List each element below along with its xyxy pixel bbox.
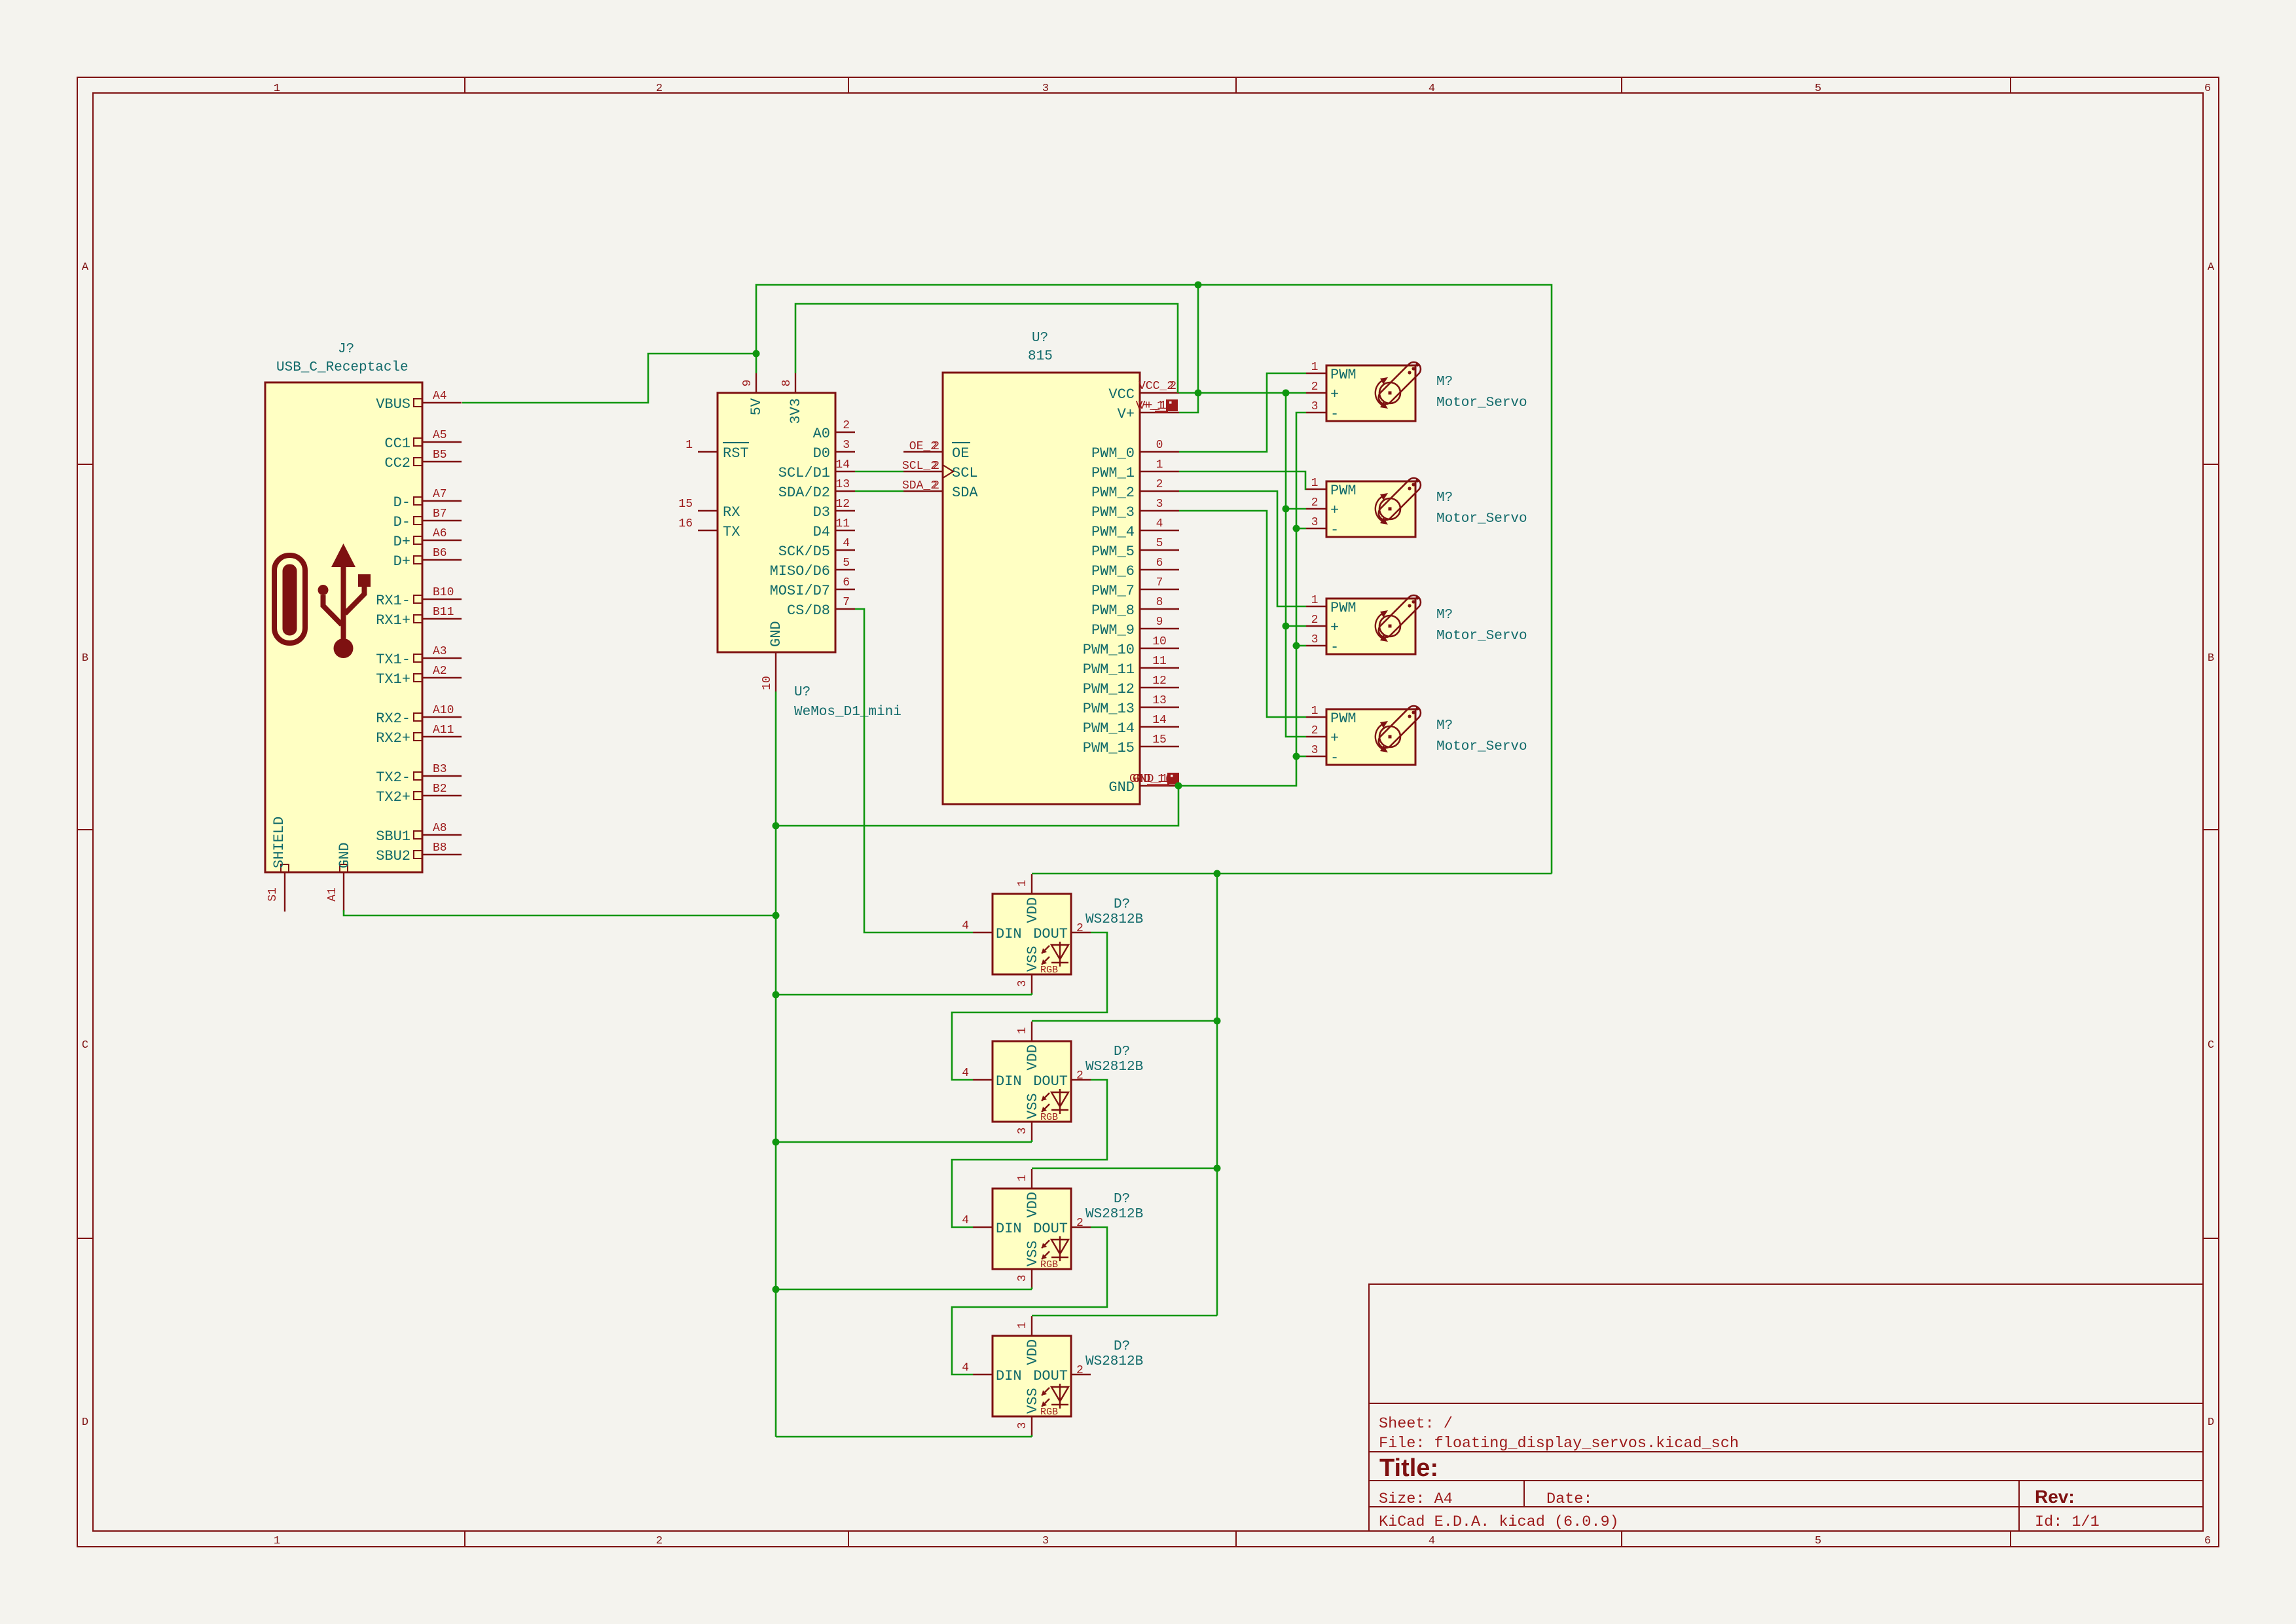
pin 2 A0 of U1 xyxy=(835,432,855,433)
svg-text:B8: B8 xyxy=(433,841,447,855)
svg-text:GND: GND xyxy=(1108,779,1135,796)
USB icon receptacle oval xyxy=(274,555,305,643)
servo pin 2 + xyxy=(1306,736,1326,737)
led D? WS2812B body xyxy=(993,894,1071,974)
svg-text:0: 0 xyxy=(1156,439,1163,452)
svg-text:15: 15 xyxy=(678,498,693,511)
junction VDD feeder LED2 xyxy=(1214,1018,1221,1025)
svg-text:2: 2 xyxy=(1076,1217,1084,1230)
svg-text:2: 2 xyxy=(1156,478,1163,491)
svg-text:3: 3 xyxy=(1311,400,1319,413)
svg-text:CC2: CC2 xyxy=(384,455,410,471)
svg-text:SBU1: SBU1 xyxy=(376,828,410,845)
svg-text:RX2+: RX2+ xyxy=(376,730,410,747)
svg-text:SCL: SCL xyxy=(952,465,978,481)
wire VBUS from J1 to 5V node xyxy=(462,354,756,403)
svg-text:16: 16 xyxy=(678,517,693,530)
junction - bus servo2 xyxy=(1293,525,1300,532)
pin SCL_2 SCL of U2 xyxy=(903,471,943,472)
servo pin 1 PWM xyxy=(1306,489,1326,490)
title block column divider rev xyxy=(2018,1481,2020,1531)
wire 5V top rail xyxy=(756,285,1552,874)
wire 5V pin riser xyxy=(756,354,757,373)
svg-text:9: 9 xyxy=(741,380,754,387)
svg-text:2: 2 xyxy=(1311,614,1319,627)
junction 5V node xyxy=(753,350,760,358)
svg-text:WS2812B: WS2812B xyxy=(1085,1354,1143,1369)
svg-text:PWM: PWM xyxy=(1330,600,1357,616)
module U1 WeMos_D1_mini body xyxy=(718,393,835,652)
wire SCL between U1 and U2 xyxy=(855,471,903,473)
wire GND from J1 A1 xyxy=(344,910,776,915)
svg-text:D+: D+ xyxy=(393,534,410,550)
svg-text:3: 3 xyxy=(843,439,850,452)
svg-text:RX1+: RX1+ xyxy=(376,612,410,629)
svg-text:4: 4 xyxy=(1429,1535,1435,1547)
svg-text:B3: B3 xyxy=(433,763,447,776)
svg-text:2: 2 xyxy=(1169,380,1176,393)
svg-text:3: 3 xyxy=(1016,1275,1029,1282)
pin 8 PWM_8 of U2 xyxy=(1140,608,1179,610)
ic U2 815 body xyxy=(943,373,1140,804)
junction VCC/V+/5V xyxy=(1195,390,1202,397)
motor servo M? body xyxy=(1326,365,1415,421)
wire PWM_2 to servo3 xyxy=(1179,491,1306,606)
pin 7 PWM_7 of U2 xyxy=(1140,589,1179,590)
svg-text:+: + xyxy=(1330,386,1339,403)
svg-text:+: + xyxy=(1330,730,1339,747)
svg-text:C: C xyxy=(2208,1039,2214,1052)
svg-text:VDD: VDD xyxy=(1025,1192,1041,1218)
svg-text:PWM: PWM xyxy=(1330,367,1357,383)
svg-text:VSS: VSS xyxy=(1025,1240,1041,1266)
svg-text:RGB: RGB xyxy=(1040,1112,1058,1123)
pin B3 TX2- of J1 xyxy=(422,775,462,777)
junction 5V rail to VCC drop xyxy=(1195,282,1202,289)
svg-text:M?: M? xyxy=(1436,490,1453,506)
svg-text:VDD: VDD xyxy=(1025,1044,1041,1071)
svg-text:A5: A5 xyxy=(433,429,447,442)
svg-text:2: 2 xyxy=(656,1535,663,1547)
svg-text:PWM_13: PWM_13 xyxy=(1083,701,1135,717)
svg-text:TX2+: TX2+ xyxy=(376,789,410,805)
svg-text:PWM_10: PWM_10 xyxy=(1083,642,1135,658)
junction + bus servo2 xyxy=(1283,506,1290,513)
pin 12 PWM_12 of U2 xyxy=(1140,687,1179,688)
svg-text:B2: B2 xyxy=(433,783,447,796)
svg-text:B: B xyxy=(2208,652,2214,665)
junction VDD rail feeder xyxy=(1214,870,1221,877)
svg-text:SCK/D5: SCK/D5 xyxy=(778,544,830,560)
svg-text:4: 4 xyxy=(962,1214,969,1227)
svg-text:4: 4 xyxy=(962,919,969,932)
pin S1 SHIELD of J1 xyxy=(284,872,285,912)
wire PWM_0 to servo1 xyxy=(1179,373,1306,452)
svg-text:RGB: RGB xyxy=(1040,965,1058,976)
servo pin 1 PWM xyxy=(1306,606,1326,607)
svg-text:1: 1 xyxy=(1311,594,1319,607)
led pin 3 VSS xyxy=(1031,1416,1032,1436)
svg-text:KiCad E.D.A. kicad (6.0.9): KiCad E.D.A. kicad (6.0.9) xyxy=(1379,1513,1619,1531)
svg-text:8: 8 xyxy=(1156,596,1163,609)
svg-text:File: floating_display_servos.: File: floating_display_servos.kicad_sch xyxy=(1379,1435,1739,1452)
svg-text:PWM_15: PWM_15 xyxy=(1083,740,1135,756)
svg-text:D: D xyxy=(82,1416,88,1429)
wire V+ link xyxy=(1179,393,1198,413)
svg-text:VBUS: VBUS xyxy=(376,396,410,413)
svg-text:PWM_14: PWM_14 xyxy=(1083,720,1135,737)
USB icon trident symbol xyxy=(318,544,371,658)
led pin 4 DIN xyxy=(973,1374,993,1375)
junction GND pin of U2 xyxy=(1175,783,1182,790)
pin V+ stacked numbers of U2 xyxy=(1140,412,1179,413)
title block row dividers xyxy=(1369,1403,2203,1404)
motor servo M? body xyxy=(1326,599,1415,654)
pin 13 SDA/D2 of U1 xyxy=(835,490,855,492)
svg-text:VCC_2: VCC_2 xyxy=(1139,380,1174,393)
svg-text:DOUT: DOUT xyxy=(1033,1368,1068,1384)
svg-text:3: 3 xyxy=(1016,1422,1029,1430)
pin 15 PWM_15 of U2 xyxy=(1140,746,1179,747)
pin OE_2 ~OE of U2 xyxy=(903,451,943,452)
wire servo - bus xyxy=(1178,413,1306,786)
svg-text:-: - xyxy=(1330,750,1339,766)
svg-text:A1: A1 xyxy=(326,887,339,902)
svg-text:D+: D+ xyxy=(393,553,410,570)
svg-text:1: 1 xyxy=(1016,880,1029,887)
servo pin 1 PWM xyxy=(1306,373,1326,374)
svg-text:B5: B5 xyxy=(433,449,447,462)
led pin 4 DIN xyxy=(973,1227,993,1228)
svg-text:PWM_9: PWM_9 xyxy=(1091,622,1135,638)
svg-text:U?: U? xyxy=(1032,331,1048,346)
svg-text:CS/D8: CS/D8 xyxy=(787,602,830,619)
led pin 3 VSS xyxy=(1031,1269,1032,1289)
servo motor glyph xyxy=(1376,360,1423,409)
svg-text:Date:: Date: xyxy=(1546,1490,1593,1508)
svg-text:4: 4 xyxy=(1156,517,1163,530)
wire + bus branch servo2 xyxy=(1286,508,1306,510)
svg-text:C: C xyxy=(82,1039,88,1052)
led pin 2 DOUT xyxy=(1071,1227,1091,1228)
wire PWM_1 to servo2 xyxy=(1179,471,1306,489)
pin 3 D0 of U1 xyxy=(835,451,855,452)
wire LED1 VSS to GND trunk xyxy=(776,994,1032,996)
pin 5 MISO/D6 of U1 xyxy=(835,569,855,570)
svg-text:1: 1 xyxy=(274,83,280,95)
svg-text:Motor_Servo: Motor_Servo xyxy=(1436,629,1527,644)
svg-text:2: 2 xyxy=(1076,922,1084,935)
servo pin 2 + xyxy=(1306,508,1326,509)
svg-text:MISO/D6: MISO/D6 xyxy=(770,563,830,580)
svg-text:10: 10 xyxy=(1152,635,1167,648)
svg-text:VSS: VSS xyxy=(1025,1388,1041,1414)
led pin 3 VSS xyxy=(1031,1122,1032,1141)
wire LED VDD feeder vertical xyxy=(1216,874,1218,1316)
svg-text:DIN: DIN xyxy=(996,926,1022,942)
servo pin 3 - xyxy=(1306,756,1326,757)
svg-text:14: 14 xyxy=(1152,714,1167,727)
pin 14 SCL/D1 of U1 xyxy=(835,471,855,472)
svg-text:3: 3 xyxy=(1311,633,1319,646)
svg-text:S1: S1 xyxy=(266,887,280,902)
svg-text:1: 1 xyxy=(1016,1322,1029,1329)
svg-text:TX1+: TX1+ xyxy=(376,671,410,688)
led pin 2 DOUT xyxy=(1071,1374,1091,1375)
svg-text:RX2-: RX2- xyxy=(376,710,410,727)
pin 2 PWM_2 of U2 xyxy=(1140,490,1179,492)
svg-text:PWM_3: PWM_3 xyxy=(1091,504,1135,521)
wire LED4 VDD xyxy=(1032,1315,1217,1317)
wire - bus branch servo4 xyxy=(1296,756,1306,758)
pin 15 RX of U1 xyxy=(698,510,718,511)
pin B7 D- of J1 xyxy=(422,520,462,521)
pin A6 D+ of J1 xyxy=(422,540,462,541)
svg-text:2: 2 xyxy=(1076,1069,1084,1082)
svg-text:RST: RST xyxy=(723,445,749,462)
svg-text:3V3: 3V3 xyxy=(788,398,804,424)
pin B10 RX1- of J1 xyxy=(422,599,462,600)
svg-text:Title:: Title: xyxy=(1379,1454,1438,1482)
wire CS/D8 to LED1 DIN xyxy=(855,609,973,932)
svg-text:2: 2 xyxy=(1311,724,1319,737)
pin B11 RX1+ of J1 xyxy=(422,618,462,619)
wire LED3 VDD xyxy=(1032,1168,1217,1170)
junction GND trunk LED row xyxy=(773,991,780,999)
svg-text:SCL/D1: SCL/D1 xyxy=(778,465,830,481)
svg-text:DOUT: DOUT xyxy=(1033,1073,1068,1090)
led D? WS2812B body xyxy=(993,1189,1071,1269)
svg-text:8: 8 xyxy=(780,380,793,387)
pin 4 SCK/D5 of U1 xyxy=(835,549,855,551)
pin 4 PWM_4 of U2 xyxy=(1140,530,1179,531)
svg-text:11: 11 xyxy=(1152,655,1167,668)
svg-text:A: A xyxy=(82,261,89,274)
svg-text:1: 1 xyxy=(1156,458,1163,471)
pin A11 RX2+ of J1 xyxy=(422,736,462,737)
svg-text:VDD: VDD xyxy=(1025,1339,1041,1365)
servo pin 3 - xyxy=(1306,412,1326,413)
svg-text:DIN: DIN xyxy=(996,1368,1022,1384)
pin 13 PWM_13 of U2 xyxy=(1140,707,1179,708)
svg-text:PWM_8: PWM_8 xyxy=(1091,602,1135,619)
pin 6 MOSI/D7 of U1 xyxy=(835,589,855,590)
wire LED4 VSS to GND trunk xyxy=(776,1436,1032,1438)
frame column ticks bottom xyxy=(464,1531,465,1547)
svg-text:RX1-: RX1- xyxy=(376,593,410,609)
wire SDA between U1 and U2 xyxy=(855,490,903,492)
pin 3 PWM_3 of U2 xyxy=(1140,510,1179,511)
svg-text:CC1: CC1 xyxy=(384,435,410,452)
led diode glyph xyxy=(1042,942,1068,967)
svg-text:M?: M? xyxy=(1436,375,1453,390)
led diode glyph xyxy=(1042,1384,1068,1409)
svg-text:SBU2: SBU2 xyxy=(376,848,410,864)
motor servo M? body xyxy=(1326,481,1415,537)
pin 11 D4 of U1 xyxy=(835,530,855,531)
svg-text:PWM_6: PWM_6 xyxy=(1091,563,1135,580)
svg-text:A10: A10 xyxy=(433,704,454,717)
svg-text:TX: TX xyxy=(723,524,740,540)
junction VCC line to + bus xyxy=(1283,390,1290,397)
svg-text:PWM_11: PWM_11 xyxy=(1083,661,1135,678)
svg-text:-: - xyxy=(1330,639,1339,655)
svg-text:PWM_7: PWM_7 xyxy=(1091,583,1135,599)
svg-text:D4: D4 xyxy=(813,524,830,540)
svg-text:Sheet: /: Sheet: / xyxy=(1379,1415,1453,1433)
svg-text:2: 2 xyxy=(932,460,939,473)
svg-text:PWM_12: PWM_12 xyxy=(1083,681,1135,697)
pin A3 TX1- of J1 xyxy=(422,657,462,659)
svg-text:A8: A8 xyxy=(433,822,447,835)
svg-text:9: 9 xyxy=(1156,616,1163,629)
pin 12 D3 of U1 xyxy=(835,510,855,511)
svg-text:RGB: RGB xyxy=(1040,1407,1058,1418)
pin 9 PWM_9 of U2 xyxy=(1140,628,1179,629)
svg-text:Id: 1/1: Id: 1/1 xyxy=(2035,1513,2100,1531)
wire GND trunk vertical xyxy=(775,692,777,1437)
svg-text:3: 3 xyxy=(1156,498,1163,511)
svg-text:Size: A4: Size: A4 xyxy=(1379,1490,1453,1508)
svg-text:D?: D? xyxy=(1114,1044,1130,1060)
frame row ticks left xyxy=(77,464,93,465)
pin B8 SBU2 of J1 xyxy=(422,854,462,855)
wire - bus branch servo2 xyxy=(1296,528,1306,530)
pin A7 D- of J1 xyxy=(422,500,462,502)
svg-text:4: 4 xyxy=(962,1067,969,1080)
title block column divider size/date xyxy=(1523,1481,1525,1507)
svg-text:7: 7 xyxy=(1156,576,1163,589)
svg-text:Motor_Servo: Motor_Servo xyxy=(1436,511,1527,526)
junction GND trunk row 1398 xyxy=(773,912,780,919)
junction + bus servo3 xyxy=(1283,623,1290,630)
led pin 3 VSS xyxy=(1031,974,1032,994)
svg-text:A3: A3 xyxy=(433,645,447,658)
svg-text:V+_1: V+_1 xyxy=(1136,399,1164,413)
svg-text:13: 13 xyxy=(835,478,850,491)
svg-text:D0: D0 xyxy=(813,445,830,462)
junction - bus servo4 xyxy=(1293,753,1300,760)
pin 6 PWM_6 of U2 xyxy=(1140,569,1179,570)
led diode glyph xyxy=(1042,1236,1068,1261)
junction GND trunk row 1261 xyxy=(773,822,780,830)
svg-text:6: 6 xyxy=(2204,1535,2211,1547)
frame row ticks right xyxy=(2203,464,2219,465)
svg-text:OE: OE xyxy=(952,445,969,462)
svg-text:A7: A7 xyxy=(433,488,447,501)
svg-text:SDA: SDA xyxy=(952,485,978,501)
wire + bus branch servo3 xyxy=(1286,625,1306,627)
svg-text:Rev:: Rev: xyxy=(2035,1486,2075,1507)
svg-text:5: 5 xyxy=(1815,83,1821,95)
svg-text:1: 1 xyxy=(1311,705,1319,718)
svg-text:M?: M? xyxy=(1436,608,1453,623)
pin 11 PWM_11 of U2 xyxy=(1140,667,1179,669)
wire LED3 VSS to GND trunk xyxy=(776,1289,1032,1291)
svg-text:2: 2 xyxy=(656,83,663,95)
wire LED1 DOUT to LED2 DIN xyxy=(952,932,1107,1080)
svg-text:DIN: DIN xyxy=(996,1073,1022,1090)
title block outline xyxy=(1369,1284,2203,1531)
svg-text:5: 5 xyxy=(1156,537,1163,550)
svg-text:GND: GND xyxy=(337,842,353,868)
svg-text:14: 14 xyxy=(835,458,850,471)
svg-text:815: 815 xyxy=(1028,349,1053,364)
junction GND trunk LED row xyxy=(773,1286,780,1293)
svg-text:2: 2 xyxy=(1076,1364,1084,1377)
svg-text:WS2812B: WS2812B xyxy=(1085,1060,1143,1075)
svg-text:3: 3 xyxy=(1042,83,1049,95)
svg-text:4: 4 xyxy=(843,537,850,550)
svg-text:12: 12 xyxy=(1152,674,1167,688)
svg-text:1: 1 xyxy=(274,1535,280,1547)
pin SDA_2 SDA of U2 xyxy=(903,490,943,492)
svg-text:TX1-: TX1- xyxy=(376,652,410,668)
svg-text:A: A xyxy=(2208,261,2215,274)
led pin 1 VDD xyxy=(1031,1316,1032,1336)
svg-text:6: 6 xyxy=(2204,83,2211,95)
pin 16 TX of U1 xyxy=(698,530,718,531)
svg-text:2: 2 xyxy=(1311,496,1319,509)
svg-text:RGB: RGB xyxy=(1040,1259,1058,1270)
svg-text:1: 1 xyxy=(1016,1175,1029,1182)
pin 5 PWM_5 of U2 xyxy=(1140,549,1179,551)
pin A8 SBU1 of J1 xyxy=(422,834,462,836)
USB icon inner blade xyxy=(283,564,297,635)
servo pin 2 + xyxy=(1306,392,1326,394)
motor servo M? body xyxy=(1326,709,1415,765)
svg-text:U?: U? xyxy=(794,685,811,700)
svg-text:A6: A6 xyxy=(433,527,447,540)
svg-text:4: 4 xyxy=(1429,83,1435,95)
svg-text:A4: A4 xyxy=(433,390,447,403)
svg-text:1: 1 xyxy=(1311,477,1319,490)
svg-text:1: 1 xyxy=(1311,361,1319,374)
svg-text:5: 5 xyxy=(1815,1535,1821,1547)
svg-text:WS2812B: WS2812B xyxy=(1085,912,1143,927)
led pin 1 VDD xyxy=(1031,1169,1032,1189)
junction GND trunk LED row xyxy=(773,1139,780,1146)
svg-text:J?: J? xyxy=(338,342,354,357)
pin 1 PWM_1 of U2 xyxy=(1140,471,1179,472)
svg-text:2: 2 xyxy=(932,440,939,453)
svg-text:Motor_Servo: Motor_Servo xyxy=(1436,396,1527,411)
svg-text:3: 3 xyxy=(1016,980,1029,987)
svg-text:4: 4 xyxy=(962,1361,969,1375)
servo pin 3 - xyxy=(1306,645,1326,646)
svg-text:+: + xyxy=(1330,619,1339,636)
svg-text:B7: B7 xyxy=(433,507,447,521)
svg-text:SDA/D2: SDA/D2 xyxy=(778,485,830,501)
svg-text:USB_C_Receptacle: USB_C_Receptacle xyxy=(276,360,409,375)
svg-text:B10: B10 xyxy=(433,586,454,599)
servo pin 1 PWM xyxy=(1306,716,1326,718)
svg-text:3: 3 xyxy=(1042,1535,1049,1547)
svg-text:B6: B6 xyxy=(433,547,447,560)
svg-text:5: 5 xyxy=(843,557,850,570)
pin 10 PWM_10 of U2 xyxy=(1140,648,1179,649)
svg-text:3: 3 xyxy=(1311,744,1319,757)
pin A5 CC1 of J1 xyxy=(422,441,462,443)
svg-text:7: 7 xyxy=(843,596,850,609)
led D? WS2812B body xyxy=(993,1336,1071,1416)
servo pin 3 - xyxy=(1306,528,1326,529)
wire LED2 DOUT to LED3 DIN xyxy=(952,1080,1107,1227)
svg-text:Motor_Servo: Motor_Servo xyxy=(1436,739,1527,754)
svg-text:D-: D- xyxy=(393,494,410,511)
pin B2 TX2+ of J1 xyxy=(422,795,462,796)
led pin 1 VDD xyxy=(1031,874,1032,894)
